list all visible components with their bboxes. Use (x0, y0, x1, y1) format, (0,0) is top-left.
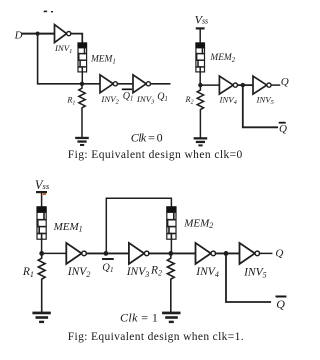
inverter INV4 (bottom) (196, 243, 216, 264)
junction INV4 output (241, 83, 245, 87)
svg-text:INV3: INV3 (126, 266, 150, 279)
wire INV2 to INV3 (bottom) (86, 252, 128, 254)
svg-text:D: D (14, 29, 23, 41)
wire junction to INV4 (200, 84, 219, 86)
inverter INV3 (133, 75, 150, 93)
resistor R1 (bottom) (38, 253, 45, 311)
wire to Q-bar (top fig) (243, 85, 277, 127)
svg-text:Q1: Q1 (157, 91, 168, 103)
junction on D wire (36, 31, 40, 35)
svg-text:Q1: Q1 (102, 262, 113, 274)
junction MEM1/R1/row (bottom) (39, 251, 44, 256)
svg-text:Vss: Vss (35, 178, 50, 192)
svg-text:Fig: Equivalent design when cl: Fig: Equivalent design when clk=1. (68, 331, 244, 343)
junction MEM2/R2/row (bottom) (168, 251, 173, 256)
junction MEM2/R2/row (198, 83, 202, 87)
svg-text:MEM2: MEM2 (209, 53, 235, 64)
svg-text:INV2: INV2 (67, 266, 91, 279)
svg-text:MEM1: MEM1 (53, 221, 83, 234)
svg-text:INV1: INV1 (54, 43, 72, 55)
resistor R1 (79, 84, 85, 137)
svg-text:Clk = 0: Clk = 0 (131, 130, 163, 144)
inverter INV2 (bottom) (66, 243, 86, 264)
wire INV1 output to MEM1 top (71, 34, 82, 44)
ground below R2 (bottom) (162, 312, 180, 324)
wire INV4 to INV5 (bottom) (216, 252, 240, 254)
resistor R2 (bottom) (167, 253, 174, 311)
svg-text:R1: R1 (66, 96, 75, 107)
ground below R1 (bottom) (32, 312, 50, 324)
inverter INV2 (100, 75, 118, 93)
wire Vss to MEM1 (bottom) (41, 193, 43, 207)
node Q-bar label (bottom) (276, 297, 285, 311)
wire INV5 output to Q (bottom) (260, 252, 272, 254)
svg-text:R2: R2 (185, 95, 194, 106)
svg-text:Clk = 1: Clk = 1 (120, 310, 158, 324)
ground below R1 (75, 137, 89, 146)
artifact dashes (44, 11, 53, 13)
wire MEM2 bottom to junction (199, 72, 201, 85)
wire INV2 to INV3 (118, 83, 133, 85)
feedback wire Q1-bar up to MEM2 (bottom) (106, 198, 171, 253)
svg-text:INV3: INV3 (136, 94, 154, 106)
supply Vss rail bar (bottom) (36, 191, 47, 193)
memristor MEM1 (78, 43, 87, 72)
svg-text:Vss: Vss (195, 13, 209, 27)
wire junction down and right to row 2 (38, 34, 100, 84)
svg-text:MEM1: MEM1 (90, 55, 116, 66)
junction INV4 output (bottom) (224, 251, 229, 256)
wire INV3 output Q1 (151, 83, 170, 85)
inverter INV1 (55, 25, 71, 43)
wire Vss to MEM2 (199, 29, 201, 43)
ground below R2 (194, 137, 208, 146)
inverter INV4 (219, 76, 237, 94)
wire to Q-bar (bottom) (226, 253, 270, 302)
memristor MEM2 (bottom) (167, 207, 177, 240)
svg-text:INV4: INV4 (195, 266, 219, 279)
node Q1-bar label (123, 89, 134, 102)
wire INV5 output to Q (271, 84, 279, 86)
inverter INV5 (253, 76, 271, 94)
svg-text:Q: Q (275, 248, 283, 260)
wire MEM2 bottom to junction (bottom) (170, 239, 172, 253)
junction Q1-bar (bottom) (104, 251, 109, 256)
svg-text:Q1: Q1 (123, 91, 134, 103)
resistor R2 (197, 85, 203, 137)
svg-text:R2: R2 (150, 265, 162, 278)
wire MEM1 bottom to junction (bottom) (41, 239, 43, 253)
node Q1-bar label (bottom) (102, 259, 113, 274)
wire INV4 to INV5 (238, 84, 253, 86)
svg-text:INV5: INV5 (243, 267, 267, 280)
svg-text:Fig: Equivalent design when c: Fig: Equivalent design when clk=0 (68, 149, 243, 161)
supply Vss rail bar (top) (196, 27, 205, 29)
wire junction to INV2 (bottom) (42, 252, 67, 254)
svg-text:Q: Q (276, 297, 285, 311)
wire INV3 to INV4 (bottom) (149, 252, 196, 254)
junction MEM1/R1/row (80, 82, 84, 86)
wire D to INV1 input (23, 33, 55, 35)
wire MEM1 bottom to junction (81, 72, 83, 84)
svg-text:MEM2: MEM2 (183, 217, 213, 230)
inverter INV3 (bottom) (129, 243, 149, 264)
svg-text:INV2: INV2 (100, 94, 119, 106)
svg-text:Q: Q (281, 76, 289, 88)
svg-text:Q: Q (279, 123, 287, 135)
svg-text:R1: R1 (22, 266, 34, 279)
svg-text:INV5: INV5 (256, 94, 274, 106)
memristor MEM2 (196, 43, 205, 72)
memristor MEM1 (bottom) (37, 207, 47, 240)
scan artifact orange (43, 193, 45, 195)
inverter INV5 (bottom) (240, 243, 260, 264)
svg-text:INV4: INV4 (219, 94, 238, 106)
node Q-bar label (top fig) (279, 123, 287, 136)
